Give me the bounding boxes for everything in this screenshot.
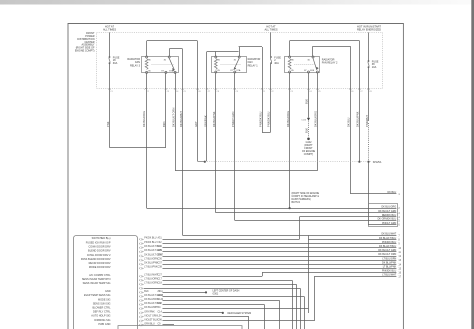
wire relay 2 87 down (BLK) [308, 73, 310, 118]
svg-text:30A: 30A [113, 62, 118, 65]
svg-text:VIOLET BLU: VIOLET BLU [144, 319, 158, 321]
relay 2 pin 86 (top left) [289, 56, 291, 58]
relay 3 pin 87 (bottom right) [174, 71, 176, 73]
front power distribution center (dashed box) [97, 33, 383, 89]
svg-text:PK/DK BLU: PK/DK BLU [144, 238, 156, 240]
svg-text:LT BLU/PNK: LT BLU/PNK [383, 266, 397, 269]
relay 2 pin 87A (bottom right) [316, 71, 318, 73]
svg-text:DK BLU: DK BLU [388, 191, 397, 194]
svg-text:DEFOGGER SYSTEM: DEFOGGER SYSTEM [228, 313, 252, 315]
svg-text:BLK: BLK [304, 128, 308, 133]
relay 2 switch blade [313, 58, 318, 69]
relay 2 coil [288, 59, 291, 70]
svg-text:PASS BLEND DOOR DRV: PASS BLEND DOOR DRV [81, 258, 111, 261]
wire PWR GND ORN BLU [163, 324, 175, 326]
wire row 9 PNK/DK BLU [163, 243, 397, 245]
relay 1 switch blade [234, 58, 239, 69]
wire row 8 DK BLU/LT BLU [308, 239, 396, 241]
svg-text:GRY/PNK: GRY/PNK [203, 115, 207, 127]
wire relay 2 pin 86 up [289, 41, 291, 56]
svg-text:DK BLU/PNK: DK BLU/PNK [356, 111, 360, 127]
svg-text:DK BLU/ORG: DK BLU/ORG [286, 111, 290, 127]
wire relay 3 87 down [175, 73, 177, 170]
svg-text:C3: C3 [290, 91, 292, 93]
wire run/start feed to fuse 38 [368, 32, 370, 60]
svg-text:BLOWER CTRL: BLOWER CTRL [92, 306, 111, 309]
wire relay 1 87A down to row 5 [234, 73, 236, 220]
relay 1 pin 86 (top left) [215, 56, 217, 58]
relay 1 pin 30 (top right) [238, 56, 240, 58]
svg-text:PNK/DK BLU: PNK/DK BLU [382, 241, 396, 244]
svg-text:DK BLU/LT BLU: DK BLU/LT BLU [379, 245, 396, 248]
svg-text:C6: C6 [198, 91, 200, 93]
wire row 3 DK BLU/LT GRN [216, 212, 397, 214]
svg-text:SWITCHED B(+): SWITCHED B(+) [92, 237, 111, 240]
wire drop 207 to splice line [206, 52, 208, 162]
wire relay 3 85 down to row 2 [146, 73, 148, 208]
svg-text:LT BLU/PNK: LT BLU/PNK [144, 267, 158, 269]
ground G102 [307, 138, 310, 141]
svg-text:G301: G301 [213, 294, 219, 296]
svg-text:LEFT CENTER OF DASH: LEFT CENTER OF DASH [213, 289, 240, 292]
relay 1 pin 85 (bottom left) [215, 71, 217, 73]
svg-text:C4: C4 [176, 91, 178, 93]
svg-text:C2: C2 [146, 91, 148, 93]
svg-text:AUTO HDLP SIG: AUTO HDLP SIG [91, 315, 110, 318]
svg-text:C120: C120 [158, 299, 164, 301]
svg-text:C2: C2 [271, 91, 273, 93]
wire relay 2 pin 30 up [312, 46, 314, 56]
wire drop 350 down to row 1 [350, 46, 352, 194]
svg-text:C128: C128 [158, 295, 164, 297]
wire row 4 RED/DK BLU [299, 216, 396, 218]
svg-text:DK BLU/PNK: DK BLU/PNK [212, 111, 216, 127]
relay 2 pin 85 (bottom left) [289, 71, 291, 73]
fuse 2 40A [270, 56, 272, 58]
wire row 14 DK BLU/PNK [163, 264, 397, 266]
wire jog row 17 down to lower row [314, 277, 316, 322]
relay 3 pin 30 (top right) [168, 56, 170, 58]
wire drop 359 to splice [359, 41, 361, 162]
svg-text:87A: 87A [310, 69, 314, 72]
wire loop left leg down [262, 47, 264, 132]
rail relay 3 30 to drop [169, 48, 182, 50]
svg-text:RELAY ENERGIZED: RELAY ENERGIZED [357, 28, 381, 32]
wire fuse 38 output down [368, 68, 370, 121]
svg-text:LT BLU/ORN: LT BLU/ORN [144, 279, 158, 281]
relay 3 actuator dashed link [152, 64, 175, 66]
svg-text:A31: A31 [158, 237, 163, 240]
wire row 7 DK BLU/WHT [183, 235, 397, 237]
splice dot 359 [358, 161, 360, 163]
svg-text:C38: C38 [158, 267, 163, 269]
svg-text:DIMMING SIG: DIMMING SIG [94, 319, 110, 322]
svg-text:LT BLU/WHT: LT BLU/WHT [144, 275, 158, 277]
svg-text:COWL DOOR DRV 2: COWL DOOR DRV 2 [87, 254, 111, 257]
wire relay 3 pin 30 up [169, 49, 171, 56]
rail relay1 30 to fuse2 loop [239, 46, 262, 48]
window top bar [0, 0, 474, 5]
svg-text:C27: C27 [158, 275, 163, 277]
wire row 1 DK BLU [350, 193, 396, 195]
svg-text:DK BLU/ORG: DK BLU/ORG [142, 111, 146, 127]
svg-text:LT BLU/WHT: LT BLU/WHT [382, 274, 397, 277]
wire link fuse18 to 87A [110, 147, 166, 149]
svg-text:GRY: GRY [194, 121, 198, 127]
fuse 38 10A [368, 60, 370, 62]
wire BLOWER CTRL DK BLU/WHT [163, 308, 309, 310]
wire SENS INCAR TEMP RTN LT BLU/ORN [163, 280, 293, 282]
rail relay2 30 to drop 350 [313, 46, 350, 48]
svg-text:BLEND DOOR DRV: BLEND DOOR DRV [88, 250, 111, 253]
wire drop to splice line [197, 41, 199, 161]
svg-text:SENS SUN SIG: SENS SUN SIG [93, 302, 111, 305]
wire to ground (other harness) [308, 121, 310, 138]
svg-text:C37: C37 [158, 263, 163, 265]
wire GND BLK [163, 292, 206, 294]
svg-text:ALL TIMES: ALL TIMES [264, 28, 277, 32]
wire DEF RLY CTRL GRY/PNK [163, 312, 223, 314]
relay: radiator fan relay 3 [142, 57, 179, 73]
wire hot feed to fuse 18 [109, 32, 111, 56]
svg-text:C8: C8 [217, 91, 219, 93]
svg-text:C98: C98 [158, 303, 163, 305]
svg-text:C5: C5 [183, 91, 185, 93]
relay 1 pin 87A (bottom) [234, 71, 236, 73]
svg-text:DK BLU/WHT: DK BLU/WHT [179, 111, 183, 127]
a/c-heater control connector box [74, 236, 138, 329]
relay 1 coil [214, 59, 217, 70]
svg-text:PNK/DK BLU: PNK/DK BLU [382, 270, 396, 273]
relay 3 pin 87A (bottom) [165, 71, 167, 73]
svg-text:LT BLU/GRN: LT BLU/GRN [144, 259, 158, 261]
lower component box (cut off) [118, 326, 242, 329]
wire relay 1 pin 30 up [239, 47, 241, 56]
wire row 10 DK BLU/LT BLU [163, 247, 397, 249]
svg-text:DK BLU/LT GRN: DK BLU/LT GRN [378, 210, 396, 213]
wire relay 2 87A down [317, 73, 319, 171]
svg-text:DK BLU/LT GRN: DK BLU/LT GRN [378, 249, 396, 252]
svg-text:PWR GND: PWR GND [98, 323, 110, 326]
svg-text:SENS INCAR TEMP SIG: SENS INCAR TEMP SIG [83, 282, 111, 285]
svg-text:ALL TIMES: ALL TIMES [103, 28, 116, 32]
svg-text:C36: C36 [158, 259, 163, 261]
svg-text:DK BLU: DK BLU [347, 118, 351, 127]
svg-text:COMPT): COMPT) [304, 153, 314, 156]
svg-text:F32: F32 [158, 242, 163, 244]
splice bus dashed line [207, 161, 371, 163]
svg-text:DASH HARNESS): DASH HARNESS) [292, 198, 311, 201]
wire hook to splice dot [198, 160, 205, 162]
svg-text:DK BLU/ORG: DK BLU/ORG [314, 111, 318, 127]
svg-text:C17: C17 [158, 279, 163, 281]
svg-text:BLK: BLK [304, 99, 308, 104]
svg-text:FAN RELAY 2: FAN RELAY 2 [322, 62, 338, 65]
wire jogs down to lower circuits [292, 280, 294, 329]
relay 1 actuator dashed link [221, 64, 242, 66]
fuse 18 30A [109, 56, 111, 58]
wire SENS SUN SIG DK BLU/LT BLU [163, 304, 265, 306]
svg-text:ORN BLU: ORN BLU [144, 323, 155, 325]
wire relay 3 pin 86 up [146, 41, 148, 56]
relay: radiator fan relay 2 [285, 57, 320, 73]
wire SWITCHED B(+) PK/DK BLU [163, 239, 300, 241]
wire relay 2 85 down to splice on row 2 [289, 73, 291, 208]
wire relay 1 pin 86 up [215, 52, 217, 57]
wire row 16 PNK/DK BLU [262, 272, 396, 274]
svg-text:C6: C6 [351, 91, 353, 93]
svg-text:C7: C7 [208, 91, 210, 93]
svg-text:LT BLU/GRN: LT BLU/GRN [144, 283, 158, 285]
splice to defogger system [222, 312, 224, 314]
svg-text:87A: 87A [236, 69, 240, 72]
connector group box rows 2-6 [369, 204, 398, 227]
svg-text:C1: C1 [263, 91, 265, 93]
svg-text:C9: C9 [236, 91, 238, 93]
splice to G301 [205, 291, 207, 293]
splice dot left [204, 161, 206, 163]
splice dot on row 2 [289, 207, 291, 209]
relay 2 pin 30 (top right) [312, 56, 314, 58]
relay 3 pin 85 (bottom left) [146, 71, 148, 73]
svg-text:MODE SIG: MODE SIG [98, 298, 111, 301]
wire row 15 LT BLU/PNK [163, 268, 397, 270]
page border frame [68, 24, 403, 329]
svg-text:C3: C3 [167, 91, 169, 93]
svg-text:DK BLU/LT BLU: DK BLU/LT BLU [379, 237, 396, 240]
svg-text:DK BLU/PNK: DK BLU/PNK [382, 261, 397, 264]
wire MODE SIG DK BLU/ORN [163, 300, 280, 302]
svg-text:EVAP TEMP SENS SIG: EVAP TEMP SENS SIG [84, 294, 111, 297]
svg-text:C18: C18 [158, 283, 163, 285]
svg-text:C96: C96 [158, 319, 163, 321]
wire fuse38 dashed to splice [368, 123, 370, 161]
wire row [144, 288, 300, 290]
svg-text:40A: 40A [274, 62, 279, 65]
wire relay 1 85 down to row 3 [215, 73, 217, 213]
window right scrollbar strip [471, 0, 474, 329]
svg-text:SENS INCAR TEMP RTN: SENS INCAR TEMP RTN [82, 278, 111, 281]
inline connector marker [307, 118, 310, 120]
svg-text:SP125A: SP125A [373, 161, 382, 164]
svg-text:C8: C8 [369, 91, 371, 93]
svg-text:DK BLU/LT ORN: DK BLU/LT ORN [378, 253, 396, 256]
svg-text:DK BLU/ORG: DK BLU/ORG [381, 205, 396, 208]
svg-text:RELAY 1: RELAY 1 [248, 64, 259, 67]
svg-text:COMPT, IN HEADLAMP &: COMPT, IN HEADLAMP & [292, 195, 320, 198]
wire link relay3 87 to relay2 87A [175, 170, 317, 172]
wire relay 3 87A down [165, 73, 167, 147]
wire switched B+ up to row 4 [299, 217, 301, 239]
wire hot feed to fuse 2 [270, 32, 272, 56]
wire row 13 LT BLU/GRN [163, 260, 397, 262]
svg-text:BATT24: BATT24 [292, 201, 301, 204]
svg-text:C5: C5 [318, 91, 320, 93]
wire A/C COMPR CTRL LT BLU/WHT [163, 276, 263, 278]
relay 3 switch blade [169, 58, 174, 71]
wire row 17 LT BLU/WHT [314, 276, 396, 278]
svg-text:10A: 10A [372, 66, 377, 69]
svg-text:COWN DOOR DRV: COWN DOOR DRV [88, 246, 110, 249]
svg-text:GRY/PNK: GRY/PNK [144, 311, 155, 313]
svg-text:PNK/DK BLU: PNK/DK BLU [258, 111, 262, 127]
svg-text:MODE DOOR DRV: MODE DOOR DRV [89, 266, 111, 269]
svg-text:FUSED IGN RUN O/P: FUSED IGN RUN O/P [86, 241, 111, 244]
svg-text:C307: C307 [158, 254, 164, 256]
svg-text:PNK: PNK [106, 121, 110, 127]
relay 2 actuator dashed link [294, 64, 315, 66]
svg-text:C14: C14 [158, 311, 163, 313]
wire row 12 DK BLU/LT ORN [163, 256, 397, 258]
svg-text:C35: C35 [158, 250, 163, 252]
wire jog a/c compr to row 16 [262, 272, 264, 276]
wire AUTO HDLP SIG VIO/LT GRN [163, 316, 250, 318]
wire loop bottom [262, 132, 270, 134]
svg-text:DK GRN/DK BLU: DK GRN/DK BLU [378, 218, 397, 221]
rail relay2 86 to drop 359 [290, 40, 360, 42]
svg-text:Z911: Z911 [158, 291, 164, 293]
svg-text:PNK/LT GRN: PNK/LT GRN [231, 112, 235, 127]
svg-text:LT BLU/GRN: LT BLU/GRN [382, 257, 396, 260]
svg-text:PNK/DK BLU: PNK/DK BLU [267, 111, 271, 127]
splice dot 368 [367, 161, 369, 163]
wire fuse 18 output down [109, 64, 111, 148]
svg-text:(RIGHT SIDE OF ENGINE: (RIGHT SIDE OF ENGINE [292, 193, 320, 195]
relay 2 pin 87 (bottom) [308, 71, 310, 73]
wire EVAP TEMP SENS SIG DK BLU/LT GRN [163, 296, 305, 298]
rail relay1 86 left to drop [207, 51, 239, 53]
wire SENS INCAR TEMP SIG LT BLU/GRN [163, 284, 297, 286]
svg-text:C34: C34 [158, 246, 163, 248]
svg-text:DK BLU/PNK: DK BLU/PNK [144, 263, 158, 265]
svg-text:DEF RLY CTRL: DEF RLY CTRL [93, 311, 111, 314]
wire loop right leg up to fuse 2 [270, 64, 272, 132]
svg-text:A/C COMPR CTRL: A/C COMPR CTRL [89, 274, 111, 277]
svg-text:PK/DK BLU: PK/DK BLU [144, 242, 156, 244]
svg-text:GND: GND [105, 290, 111, 293]
svg-text:BLK: BLK [144, 291, 149, 293]
wire relay 3 output down to row 7 [182, 49, 184, 235]
relay 3 coil [145, 59, 148, 70]
relay 3 pin 86 (top left) [146, 56, 148, 58]
wire row 5 DK GRN/DK BLU [235, 220, 397, 222]
svg-text:C7: C7 [360, 91, 362, 93]
svg-text:C1: C1 [110, 91, 112, 93]
svg-text:PNK/LT GRN: PNK/LT GRN [382, 222, 396, 225]
relay: radiator fan relay 1 [212, 57, 247, 73]
svg-text:C4: C4 [309, 91, 311, 93]
wire jog from row 7 down to blower ctrl row [308, 235, 310, 313]
svg-text:BRN: BRN [162, 121, 166, 127]
wire DIMMING SIG VIOLET BLU [163, 320, 315, 322]
wire row 11 DK BLU/LT GRN [163, 251, 397, 253]
svg-text:PNK/WHT: PNK/WHT [365, 115, 369, 127]
svg-text:DK BLU/WHT: DK BLU/WHT [381, 233, 396, 236]
svg-text:RECIR DOOR DRV: RECIR DOOR DRV [89, 262, 111, 265]
svg-text:RELAY 3: RELAY 3 [130, 64, 141, 67]
svg-text:DK BLU/LT ORN: DK BLU/LT ORN [171, 108, 175, 127]
wire row 2 DK BLU/ORG [147, 208, 397, 210]
wire splice down to row 6 [368, 162, 370, 225]
wire row 6 PNK/LT GRN [368, 224, 396, 226]
svg-text:VIO/LT GRN: VIO/LT GRN [144, 315, 157, 317]
rail from relay 3 86 to drop [147, 40, 198, 42]
svg-text:ENGINE COMPT): ENGINE COMPT) [75, 49, 95, 52]
